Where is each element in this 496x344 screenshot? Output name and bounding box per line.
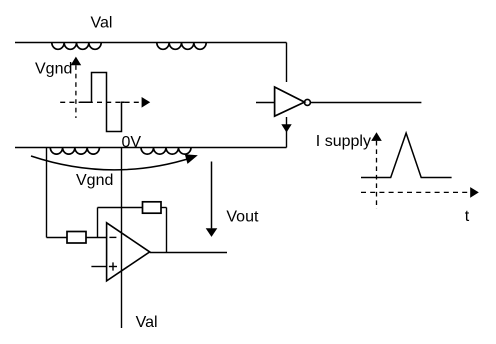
svg-text:Vgnd: Vgnd (76, 172, 113, 189)
wire: R1 to op-amp inverting input (86, 237, 107, 239)
resistor R2 (feedback) (143, 202, 162, 213)
resistor R1 (67, 232, 86, 244)
waveform: square pulse (80, 73, 125, 132)
winding L1 (top rail, left) (52, 43, 101, 50)
svg-text:I supply: I supply (316, 133, 371, 150)
svg-text:Vgnd: Vgnd (35, 61, 72, 78)
winding L3 (bottom rail, left) (50, 148, 99, 155)
curved arrow across bottom windings (31, 154, 198, 170)
wire: top rail (15, 42, 287, 44)
op-amp plus sign (109, 262, 117, 270)
op-amp U2 triangle (107, 223, 150, 281)
Vout annotation arrow (down) (206, 162, 218, 237)
waveform: supply current spike (361, 133, 452, 177)
wire: inverter drop from top rail (286, 43, 288, 83)
wire: to resistor R1 (47, 237, 68, 239)
op-amp minus sign (109, 236, 116, 238)
svg-text:t: t (465, 208, 470, 225)
axis: horizontal dashed with right arrow (pulse graph) (60, 97, 150, 108)
wire: feedback top (98, 207, 143, 209)
wire: left drop from bottom rail (46, 148, 48, 238)
svg-text:Vout: Vout (226, 208, 259, 225)
svg-text:0V: 0V (122, 134, 142, 151)
wire: R2 to drop (161, 207, 167, 209)
axis: vertical dashed with up arrow (pulse graph) (71, 57, 82, 118)
wire: non-inverting input stub (91, 266, 106, 268)
wire: inverter output (311, 102, 422, 104)
axis: horizontal dashed with right arrow (I supply graph) (361, 187, 479, 198)
wire: feedback riser (97, 208, 99, 238)
wire: inverter input stub (256, 102, 275, 104)
supply line: 0V rail down through op-amp to Val (121, 148, 123, 329)
svg-text:Val: Val (136, 314, 158, 331)
wire: op-amp output (150, 252, 227, 254)
axis: vertical dashed with up arrow (I supply graph) (371, 132, 382, 209)
inverter U1 triangle (275, 87, 305, 116)
wire: inverter to bottom rail with current arrow (281, 117, 291, 148)
wire: bottom rail 0V (15, 147, 287, 149)
winding L4 (bottom rail, right) (141, 148, 191, 155)
wire: feedback drop to output (166, 208, 168, 253)
inverter U1 output bubble (304, 99, 310, 105)
winding L2 (top rail, right) (157, 43, 206, 50)
svg-text:Val: Val (91, 14, 113, 31)
